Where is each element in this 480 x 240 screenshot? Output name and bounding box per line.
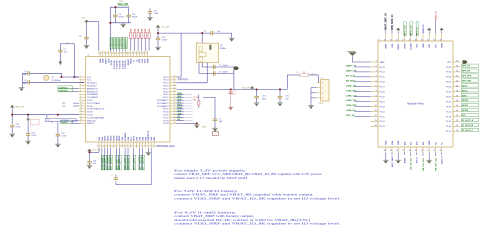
svg-text:C8: C8 xyxy=(79,36,81,38)
svg-text:GPIO7: GPIO7 xyxy=(462,105,469,107)
svg-text:SDA: SDA xyxy=(115,165,118,170)
svg-text:100nF: 100nF xyxy=(223,72,229,74)
svg-text:P0.25: P0.25 xyxy=(163,109,169,111)
svg-text:DCC: DCC xyxy=(108,58,110,63)
svg-text:63: 63 xyxy=(106,146,108,148)
svg-text:32.768kHz: 32.768kHz xyxy=(52,80,61,82)
svg-text:ADC_VBAT: ADC_VBAT xyxy=(391,155,394,167)
svg-text:1: 1 xyxy=(376,61,377,63)
svg-text:P1.09/TRACED[3]: P1.09/TRACED[3] xyxy=(87,116,104,119)
svg-text:P0.14: P0.14 xyxy=(163,80,169,82)
svg-text:41: 41 xyxy=(174,108,176,110)
svg-text:TRACED3: TRACED3 xyxy=(119,38,122,49)
svg-text:33: 33 xyxy=(140,53,142,55)
svg-text:Module Pins: Module Pins xyxy=(407,102,424,106)
svg-text:WB_IO2_EX1: WB_IO2_EX1 xyxy=(423,157,425,171)
svg-text:SWDCLK: SWDCLK xyxy=(87,120,97,122)
svg-text:LORA_RX1: LORA_RX1 xyxy=(346,89,358,92)
svg-text:74: 74 xyxy=(138,146,140,148)
svg-text:46: 46 xyxy=(104,53,106,55)
svg-text:7: 7 xyxy=(376,90,377,92)
svg-text:DEC2: DEC2 xyxy=(108,136,110,141)
svg-text:10: 10 xyxy=(80,102,82,104)
svg-text:P1.14/TR: P1.14/TR xyxy=(121,60,124,69)
svg-text:GPS_RX: GPS_RX xyxy=(462,71,471,73)
svg-text:IO_SLOT_A: IO_SLOT_A xyxy=(462,119,474,122)
svg-text:P1.13/TR: P1.13/TR xyxy=(120,60,122,69)
svg-text:P0.20: P0.20 xyxy=(380,96,386,98)
svg-text:IO1: IO1 xyxy=(411,142,413,145)
svg-text:8: 8 xyxy=(376,95,377,97)
svg-text:IO2: IO2 xyxy=(177,119,180,121)
svg-text:VDDIO: VDDIO xyxy=(398,43,400,50)
svg-text:P0.21: P0.21 xyxy=(163,97,169,99)
svg-text:UART: UART xyxy=(110,156,113,162)
svg-text:32: 32 xyxy=(174,81,176,83)
svg-text:P0.15: P0.15 xyxy=(380,77,386,79)
svg-text:P0.22/ANT1: P0.22/ANT1 xyxy=(157,99,169,102)
svg-text:P0.05: P0.05 xyxy=(446,82,452,84)
svg-text:MOSI: MOSI xyxy=(177,108,182,110)
svg-text:14: 14 xyxy=(375,125,377,127)
svg-text:3V3: 3V3 xyxy=(417,44,419,47)
svg-text:connect VDD_NRF and VBAT_IO_8K: connect VDD_NRF and VBAT_IO_8K together … xyxy=(174,196,341,200)
svg-text:P0.01/XL2: P0.01/XL2 xyxy=(87,86,98,88)
svg-text:26: 26 xyxy=(396,39,398,41)
svg-text:VDD/P0.12: VDD/P0.12 xyxy=(148,131,150,141)
svg-text:P0.06: P0.06 xyxy=(87,106,93,108)
svg-text:C?: C? xyxy=(219,65,221,67)
svg-text:38: 38 xyxy=(456,90,458,92)
svg-text:2: 2 xyxy=(80,79,81,81)
svg-text:I2C: I2C xyxy=(119,159,121,163)
svg-text:UART1_RX: UART1_RX xyxy=(346,70,357,73)
svg-text:P0.19: P0.19 xyxy=(163,91,169,93)
svg-text:8: 8 xyxy=(80,96,81,98)
svg-text:AISEL: AISEL xyxy=(403,157,406,164)
svg-text:100nF: 100nF xyxy=(223,65,229,67)
svg-text:24: 24 xyxy=(384,39,386,41)
svg-text:3: 3 xyxy=(322,93,323,95)
svg-text:P0.28: P0.28 xyxy=(102,164,104,170)
svg-text:38: 38 xyxy=(126,53,128,55)
svg-text:VCC_nRF: VCC_nRF xyxy=(161,27,170,29)
svg-text:41: 41 xyxy=(118,53,120,55)
svg-text:3V3_S: 3V3_S xyxy=(417,157,419,164)
svg-text:AIN1/P0.03: AIN1/P0.03 xyxy=(87,90,98,93)
svg-text:DEC3: DEC3 xyxy=(111,136,113,141)
svg-text:GPO1: GPO1 xyxy=(140,156,142,162)
svg-text:41: 41 xyxy=(427,150,429,152)
svg-text:PM1: PM1 xyxy=(319,103,323,105)
svg-text:66: 66 xyxy=(114,146,116,148)
svg-text:TRACED1: TRACED1 xyxy=(113,38,116,49)
svg-text:70: 70 xyxy=(126,146,128,148)
svg-text:GPS_RST: GPS_RST xyxy=(462,80,472,82)
svg-text:P1.00: P1.00 xyxy=(163,112,169,114)
svg-text:4: 4 xyxy=(376,75,377,77)
svg-text:71: 71 xyxy=(129,146,131,148)
svg-text:43: 43 xyxy=(174,113,176,115)
svg-text:34: 34 xyxy=(174,87,176,89)
svg-text:36: 36 xyxy=(396,150,398,152)
svg-text:37: 37 xyxy=(402,150,404,152)
svg-text:P0.09: P0.09 xyxy=(446,106,452,108)
svg-text:4: 4 xyxy=(80,84,81,86)
svg-text:P0.02: P0.02 xyxy=(446,67,452,69)
svg-text:RESET_N: RESET_N xyxy=(435,11,437,21)
svg-text:P0.24: P0.24 xyxy=(380,111,386,113)
svg-text:15: 15 xyxy=(80,116,82,118)
svg-text:35: 35 xyxy=(456,105,458,107)
svg-text:P0.13: P0.13 xyxy=(163,77,169,79)
svg-text:P1.15/TR: P1.15/TR xyxy=(125,60,127,69)
svg-text:60: 60 xyxy=(97,146,99,148)
svg-text:34: 34 xyxy=(456,110,458,112)
svg-text:SWDIO: SWDIO xyxy=(87,123,94,125)
svg-text:35: 35 xyxy=(134,53,136,55)
svg-text:41: 41 xyxy=(456,75,458,77)
svg-text:CSN: CSN xyxy=(177,113,182,115)
svg-text:TRACED0: TRACED0 xyxy=(110,38,113,49)
svg-text:4.7uF: 4.7uF xyxy=(31,135,37,137)
svg-text:P1.01: P1.01 xyxy=(380,121,386,123)
svg-text:36: 36 xyxy=(174,93,176,95)
svg-text:P1.07: P1.07 xyxy=(446,131,452,133)
svg-text:69: 69 xyxy=(123,146,125,148)
svg-text:64: 64 xyxy=(109,146,111,148)
svg-text:TP2: TP2 xyxy=(62,103,65,105)
svg-text:45: 45 xyxy=(106,53,108,55)
svg-text:VBAT: VBAT xyxy=(380,61,386,64)
svg-text:P0.20: P0.20 xyxy=(163,94,169,96)
svg-text:LORA_IO1: LORA_IO1 xyxy=(346,109,357,112)
svg-text:11: 11 xyxy=(375,110,377,112)
svg-text:P0.28: P0.28 xyxy=(446,87,452,89)
svg-text:GND: GND xyxy=(429,140,431,145)
svg-text:30: 30 xyxy=(421,39,423,41)
svg-text:C20: C20 xyxy=(285,96,288,98)
svg-text:VDDH: VDDH xyxy=(106,58,108,64)
svg-text:28: 28 xyxy=(409,39,411,41)
svg-text:AIN0/P0.02: AIN0/P0.02 xyxy=(87,87,98,90)
svg-text:39: 39 xyxy=(123,53,125,55)
svg-text:MISO: MISO xyxy=(125,164,127,170)
svg-text:47: 47 xyxy=(101,53,103,55)
svg-text:P0.31: P0.31 xyxy=(446,101,452,103)
svg-text:WB_IO1_EX: WB_IO1_EX xyxy=(411,157,413,169)
svg-text:61: 61 xyxy=(100,146,102,148)
svg-text:P1.05: P1.05 xyxy=(446,121,452,123)
svg-text:GPO2: GPO2 xyxy=(142,156,144,162)
svg-text:P0.26: P0.26 xyxy=(87,100,93,102)
svg-text:C?: C? xyxy=(204,31,206,33)
svg-text:P0.19: P0.19 xyxy=(380,92,386,94)
svg-text:30: 30 xyxy=(174,76,176,78)
svg-text:SWDCLK: SWDCLK xyxy=(126,39,128,49)
svg-text:TP3: TP3 xyxy=(62,106,65,108)
svg-text:X2: X2 xyxy=(197,42,199,44)
svg-text:40: 40 xyxy=(456,80,458,82)
svg-text:P5: P5 xyxy=(321,78,323,80)
svg-text:2: 2 xyxy=(376,66,377,68)
svg-text:P1.04: P1.04 xyxy=(446,116,452,118)
svg-text:2: 2 xyxy=(322,88,323,90)
svg-text:9: 9 xyxy=(376,100,377,102)
svg-text:42: 42 xyxy=(115,53,117,55)
svg-text:6: 6 xyxy=(376,85,377,87)
svg-text:44: 44 xyxy=(174,116,176,118)
svg-text:43: 43 xyxy=(440,150,442,152)
svg-text:P0.05/AIN3: P0.05/AIN3 xyxy=(87,96,98,99)
svg-text:DEC6: DEC6 xyxy=(119,136,121,141)
svg-text:P0.15: P0.15 xyxy=(163,83,169,85)
svg-text:37: 37 xyxy=(174,96,176,98)
svg-text:P0.00/XL1: P0.00/XL1 xyxy=(87,83,98,85)
svg-text:P0.23/ANT2: P0.23/ANT2 xyxy=(157,102,169,105)
svg-text:MISO: MISO xyxy=(177,105,182,107)
svg-text:31: 31 xyxy=(456,125,458,127)
svg-text:P0.09/NF: P0.09/NF xyxy=(125,132,127,141)
svg-text:GPIO6: GPIO6 xyxy=(462,100,469,102)
svg-text:P0.04/AIN2: P0.04/AIN2 xyxy=(87,93,98,96)
svg-text:LORA_RST: LORA_RST xyxy=(346,104,358,107)
svg-text:P0.29: P0.29 xyxy=(446,92,452,94)
svg-text:39: 39 xyxy=(456,85,458,87)
svg-text:33: 33 xyxy=(174,84,176,86)
svg-text:C?: C? xyxy=(66,43,68,45)
svg-text:P0.17: P0.17 xyxy=(380,87,386,89)
svg-text:5: 5 xyxy=(80,87,81,89)
svg-text:VDD_GPS: VDD_GPS xyxy=(404,25,406,35)
svg-text:IO_SLOT_B: IO_SLOT_B xyxy=(462,125,474,127)
svg-text:6: 6 xyxy=(80,90,81,92)
svg-text:P1.02: P1.02 xyxy=(380,126,386,128)
svg-text:30: 30 xyxy=(456,130,458,132)
svg-text:42: 42 xyxy=(174,110,176,112)
svg-text:NRF52840-QIAA: NRF52840-QIAA xyxy=(156,145,175,148)
svg-text:VDD_NRF_IO: VDD_NRF_IO xyxy=(391,15,394,31)
svg-text:3V3: 3V3 xyxy=(417,142,419,145)
svg-text:4: 4 xyxy=(322,98,323,100)
svg-text:1: 1 xyxy=(322,82,323,84)
svg-text:D-: D- xyxy=(134,59,136,61)
svg-text:37: 37 xyxy=(129,53,131,55)
svg-text:IO1: IO1 xyxy=(177,116,180,118)
svg-text:MOSI: MOSI xyxy=(128,164,130,170)
svg-text:P0.13: P0.13 xyxy=(380,67,386,69)
svg-text:P1.04: P1.04 xyxy=(163,123,169,125)
svg-text:25: 25 xyxy=(390,39,392,41)
svg-text:76: 76 xyxy=(143,146,145,148)
svg-text:11: 11 xyxy=(80,105,82,107)
svg-text:I2C: I2C xyxy=(116,159,118,163)
svg-text:P0.03: P0.03 xyxy=(446,72,452,74)
svg-text:13: 13 xyxy=(80,110,82,112)
svg-text:44: 44 xyxy=(456,61,458,63)
svg-text:P0.30: P0.30 xyxy=(446,96,452,98)
svg-text:VDD_nRF: VDD_nRF xyxy=(118,4,129,6)
svg-text:P3V3: P3V3 xyxy=(119,1,123,3)
svg-text:7: 7 xyxy=(80,93,81,95)
svg-text:33: 33 xyxy=(440,39,442,41)
svg-text:PAD: PAD xyxy=(153,136,156,141)
svg-text:77: 77 xyxy=(146,146,148,148)
svg-text:36: 36 xyxy=(132,53,134,55)
svg-text:SWD: SWD xyxy=(442,43,444,48)
svg-text:P1.02: P1.02 xyxy=(163,117,169,119)
svg-text:62: 62 xyxy=(103,146,105,148)
svg-text:17: 17 xyxy=(80,122,82,124)
svg-text:79: 79 xyxy=(152,146,154,148)
svg-text:C6: C6 xyxy=(24,80,26,82)
svg-text:VIO: VIO xyxy=(435,44,437,48)
svg-text:U3: U3 xyxy=(220,45,222,47)
svg-text:68: 68 xyxy=(120,146,122,148)
svg-text:4.7uF: 4.7uF xyxy=(61,136,67,138)
svg-text:48: 48 xyxy=(98,53,100,55)
svg-text:1: 1 xyxy=(80,76,81,78)
svg-text:Y2: Y2 xyxy=(52,77,54,79)
svg-text:SWD: SWD xyxy=(148,58,150,63)
svg-text:VDD: VDD xyxy=(392,43,394,48)
svg-text:WB_SPI_CS1: WB_SPI_CS1 xyxy=(435,157,437,171)
svg-text:P0.29: P0.29 xyxy=(105,164,107,170)
svg-text:100nF: 100nF xyxy=(132,17,138,19)
svg-text:IO_SLOT_C: IO_SLOT_C xyxy=(462,130,474,132)
svg-text:VBAT_nRF: VBAT_nRF xyxy=(15,106,25,109)
svg-text:AIN5: AIN5 xyxy=(177,95,181,98)
svg-text:38: 38 xyxy=(174,99,176,101)
svg-text:31: 31 xyxy=(174,79,176,81)
svg-text:32MHz: 32MHz xyxy=(220,48,226,50)
svg-text:43: 43 xyxy=(112,53,114,55)
svg-text:40: 40 xyxy=(174,105,176,107)
svg-text:LORA_TX1: LORA_TX1 xyxy=(346,84,357,87)
svg-text:LORA_CS1: LORA_CS1 xyxy=(346,99,358,102)
svg-text:P1.11/TR: P1.11/TR xyxy=(114,60,116,69)
svg-text:46: 46 xyxy=(174,122,176,124)
svg-text:XL1/P0.00: XL1/P0.00 xyxy=(59,90,68,92)
svg-text:VDD_IO: VDD_IO xyxy=(417,27,419,35)
svg-text:TRACECLK: TRACECLK xyxy=(178,78,189,81)
svg-text:TXCO_V: TXCO_V xyxy=(442,156,444,165)
svg-text:P0.08: P0.08 xyxy=(87,112,93,114)
svg-text:38: 38 xyxy=(409,150,411,152)
svg-text:VGPS: VGPS xyxy=(404,43,406,49)
svg-text:P0.14: P0.14 xyxy=(380,72,386,74)
svg-text:P0.17: P0.17 xyxy=(163,88,169,90)
svg-text:5: 5 xyxy=(376,80,377,82)
svg-text:IO2: IO2 xyxy=(423,142,425,145)
svg-text:XL2/P0.01: XL2/P0.01 xyxy=(59,87,68,89)
svg-text:C5: C5 xyxy=(24,71,26,73)
svg-text:ADC2: ADC2 xyxy=(462,89,468,92)
svg-text:45: 45 xyxy=(174,119,176,121)
svg-text:P0.27/TRACE: P0.27/TRACE xyxy=(87,102,101,105)
svg-text:10: 10 xyxy=(375,105,377,107)
svg-text:32: 32 xyxy=(143,53,145,55)
svg-text:MPZ1608: MPZ1608 xyxy=(61,120,69,122)
svg-text:SPI_MISO: SPI_MISO xyxy=(346,80,356,82)
svg-text:72: 72 xyxy=(132,146,134,148)
svg-text:34: 34 xyxy=(137,53,139,55)
svg-text:P0.07/TRACECLK: P0.07/TRACECLK xyxy=(87,108,105,111)
svg-text:P1.08: P1.08 xyxy=(87,115,93,117)
svg-text:VDD: VDD xyxy=(100,58,102,63)
svg-text:16: 16 xyxy=(80,119,82,121)
svg-text:P1.01: P1.01 xyxy=(163,115,169,117)
svg-text:VBAT: VBAT xyxy=(385,43,388,49)
svg-text:TRACECK: TRACECK xyxy=(122,38,125,49)
svg-text:connect VDD_NRF and VBAT_IO_8K: connect VDD_NRF and VBAT_IO_8K together … xyxy=(174,222,341,226)
svg-text:VBUS: VBUS xyxy=(131,58,133,64)
svg-text:ADC1: ADC1 xyxy=(462,84,468,87)
svg-text:VDD_LOR: VDD_LOR xyxy=(411,25,413,35)
svg-text:RESET: RESET xyxy=(128,58,130,65)
svg-text:3: 3 xyxy=(376,71,377,73)
svg-text:GND: GND xyxy=(398,140,400,145)
svg-text:34: 34 xyxy=(384,150,386,152)
svg-text:GPIO_3A: GPIO_3A xyxy=(346,114,355,117)
svg-text:U1: U1 xyxy=(87,54,89,56)
svg-text:12: 12 xyxy=(375,115,377,117)
svg-text:100nF: 100nF xyxy=(119,17,125,19)
svg-text:P0.16: P0.16 xyxy=(380,82,386,84)
svg-text:UART1_TX: UART1_TX xyxy=(346,65,357,68)
svg-text:P1.06: P1.06 xyxy=(446,126,452,128)
svg-text:VDD: VDD xyxy=(139,58,141,63)
svg-text:13: 13 xyxy=(375,120,377,122)
svg-text:L17: L17 xyxy=(46,120,49,122)
svg-text:VDD: VDD xyxy=(103,58,105,63)
svg-text:37: 37 xyxy=(456,95,458,97)
svg-text:14: 14 xyxy=(80,113,82,115)
svg-text:12p: 12p xyxy=(233,93,236,95)
svg-text:9: 9 xyxy=(80,99,81,101)
svg-text:C?: C? xyxy=(111,175,113,177)
svg-text:VBAT_NRF_IO: VBAT_NRF_IO xyxy=(385,13,388,30)
svg-text:TRACED2: TRACED2 xyxy=(116,38,119,49)
svg-text:31: 31 xyxy=(146,53,148,55)
svg-text:31: 31 xyxy=(427,39,429,41)
svg-text:P1.10: P1.10 xyxy=(111,60,113,65)
svg-text:SWDCLK: SWDCLK xyxy=(423,24,425,33)
svg-text:SWC: SWC xyxy=(423,43,425,48)
svg-text:P0.24/ANT3: P0.24/ANT3 xyxy=(157,105,169,108)
svg-text:P1.03: P1.03 xyxy=(163,120,169,122)
svg-text:R?: R? xyxy=(297,72,299,74)
svg-text:SPI_CLK1: SPI_CLK1 xyxy=(346,75,356,77)
svg-text:VCC_nRF: VCC_nRF xyxy=(93,149,101,151)
svg-text:P1.12/TR: P1.12/TR xyxy=(117,60,119,69)
svg-text:GPS_TX: GPS_TX xyxy=(462,66,471,68)
svg-text:42: 42 xyxy=(433,150,435,152)
svg-text:SCK: SCK xyxy=(177,110,182,112)
svg-text:GPS_PPS: GPS_PPS xyxy=(462,75,472,77)
svg-text:P0.21: P0.21 xyxy=(380,101,386,103)
svg-text:35: 35 xyxy=(174,90,176,92)
svg-text:32: 32 xyxy=(433,39,435,41)
svg-text:40: 40 xyxy=(421,150,423,152)
svg-text:U2: U2 xyxy=(378,39,380,41)
svg-text:P0.25: P0.25 xyxy=(380,116,386,118)
svg-text:SDA: SDA xyxy=(177,98,182,101)
svg-text:LORA_CLK: LORA_CLK xyxy=(346,94,357,97)
svg-text:P0.22: P0.22 xyxy=(380,106,386,108)
svg-text:78: 78 xyxy=(149,146,151,148)
svg-text:42: 42 xyxy=(456,71,458,73)
